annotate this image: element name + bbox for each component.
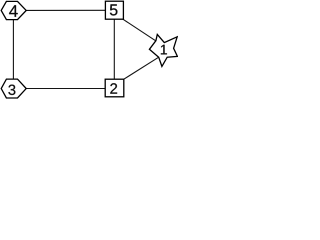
node 3 (hexagon) xyxy=(1,79,26,98)
node 4 (hexagon) xyxy=(1,1,26,19)
background xyxy=(0,0,178,101)
wire 5-2 xyxy=(113,19,115,79)
wire 4-5 xyxy=(26,9,106,11)
wire 5-1 xyxy=(123,19,156,41)
wire 2-1 xyxy=(124,57,159,79)
wire 3-2 xyxy=(26,88,106,90)
wire 4-3 xyxy=(12,19,14,79)
node 5 (box) xyxy=(105,1,123,19)
node 2 (box) xyxy=(105,79,124,97)
node 1 (star) xyxy=(149,34,177,66)
